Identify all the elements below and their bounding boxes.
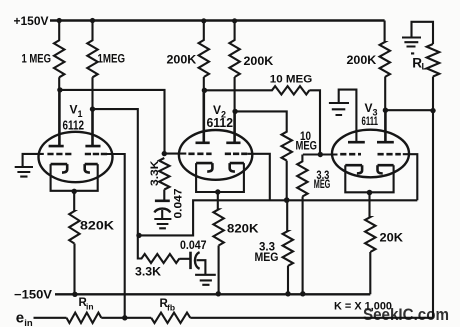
resistor R8 3.3K (plate RC) (138, 235, 191, 263)
svg-text:1: 1 (78, 109, 83, 119)
svg-text:820K: 820K (227, 224, 259, 236)
node summing junction (V1 grid) (122, 315, 127, 320)
V2 right grid dashes (225, 153, 247, 156)
node V2 left grid / 3.3K (162, 151, 167, 156)
node -150V / R13 (285, 291, 290, 296)
svg-text:V: V (213, 103, 221, 117)
resistor R14 20K (V3 cathode) (365, 192, 375, 294)
svg-text:in: in (86, 302, 94, 312)
V3 left grid dashes (340, 153, 361, 156)
wire C2 to ground (197, 260, 206, 275)
V1 left grid pin to ground (23, 154, 44, 167)
V1 right plate (85, 109, 100, 146)
node top rail / 1MEG R1 (57, 18, 62, 23)
wire Rfb to output node (190, 111, 433, 317)
svg-text:SeekIC.com: SeekIC.com (363, 305, 449, 324)
V2 right cathode (230, 163, 244, 172)
resistor R6 820K (V1 cathode) (69, 191, 79, 294)
wire V3 left grid (303, 153, 338, 155)
svg-text:200K: 200K (347, 55, 378, 67)
resistor R12 10 MEG (V2 right plate to divider) (235, 111, 292, 199)
svg-text:6112: 6112 (63, 119, 85, 133)
V1 left plate (49, 90, 64, 146)
node V2 right plate / R4 (232, 109, 237, 114)
wire V1 left plate to coupling network (60, 90, 165, 154)
svg-text:3.3K: 3.3K (135, 267, 162, 279)
node top rail / 200K R4 (232, 18, 237, 23)
resistor R9 820K (V2 cathode) (213, 192, 223, 294)
capacitor C2 0.047 (189, 252, 192, 269)
V1 left cathode (51, 164, 68, 173)
node V3 cathode junction (367, 190, 373, 196)
node V1 cathode junction (72, 189, 77, 194)
node V1 right plate / R2 (90, 106, 95, 111)
svg-text:0.047: 0.047 (173, 189, 185, 219)
node divider junction (V3 right grid node) (284, 197, 290, 203)
V1 left grid dashes (47, 153, 71, 156)
svg-text:10 MEG: 10 MEG (270, 74, 313, 86)
ground G3 (V3 left plate) (329, 103, 349, 115)
node V3 left grid junction (318, 152, 323, 157)
V2 left plate (196, 90, 210, 143)
node -150V / R11 (300, 291, 305, 296)
node top rail / 200K R3 (201, 18, 206, 23)
node V1 left plate / R1 (57, 87, 62, 92)
wire V3 left plate to ground (339, 90, 357, 141)
tube V1 envelope (39, 132, 113, 182)
wire RL bottom to output node (432, 77, 434, 112)
tube V3 envelope (332, 130, 409, 178)
svg-text:820K: 820K (80, 221, 115, 233)
svg-text:in: in (24, 318, 33, 327)
resistor R5 200K (V3 plate load) (380, 21, 390, 111)
svg-text:MEG: MEG (255, 252, 279, 264)
resistor R4 200K (V2 right plate load) (229, 21, 239, 112)
resistor R15 Rin (input) (67, 313, 102, 323)
tube V2 envelope (179, 130, 252, 180)
svg-text:−150V: −150V (14, 287, 52, 301)
capacitor C1 0.047 (155, 200, 170, 201)
wire ground to RL top (412, 22, 434, 44)
svg-text:1 MEG: 1 MEG (22, 54, 52, 66)
node junction 3.3K/0.047 branch (136, 233, 141, 238)
wire V3 cathode return (345, 165, 393, 192)
svg-text:0.047: 0.047 (180, 240, 207, 252)
node V2 left plate / R3 (202, 88, 207, 93)
V2 right grid pin to divider junction (247, 154, 270, 201)
node -150V / R6 (72, 292, 77, 297)
V2 right plate (226, 111, 240, 142)
V1 right grid dashes (85, 153, 107, 156)
V2 left cathode (196, 163, 212, 172)
wire to V2 left grid (164, 153, 186, 155)
V3 right grid pin to divider junction (403, 154, 418, 200)
svg-text:fb: fb (167, 303, 175, 313)
V3 right grid dashes (378, 153, 401, 156)
wire C1 to ground (161, 210, 163, 219)
resistor R2 1MEG (V1 right plate load) (87, 21, 97, 110)
svg-text:MEG: MEG (296, 141, 318, 153)
node top rail / 1MEG R2 (90, 18, 95, 23)
resistor R11 3.3 MEG (V3 grid to -150V) (297, 155, 307, 294)
wire V2 cathode return (196, 163, 244, 192)
ground G4 (C1) (154, 219, 171, 228)
wire e_in input line (34, 317, 67, 319)
svg-text:20K: 20K (380, 233, 404, 245)
node V3 right plate / R5 / output (383, 108, 388, 113)
V3 left cathode (345, 165, 362, 173)
svg-text:L: L (422, 62, 428, 72)
V1 right cathode (85, 164, 98, 173)
wire V1 cathode return (51, 164, 98, 191)
resistor R13 3.3 MEG (divider to -150V) (283, 200, 293, 294)
wire V3 plate to RL (385, 109, 433, 111)
node output RL bottom (430, 108, 435, 113)
resistor R16 Rfb (feedback) (151, 313, 190, 323)
svg-text:6111: 6111 (362, 114, 379, 128)
V3 left plate (348, 141, 365, 144)
svg-text:200K: 200K (167, 55, 198, 67)
wire Rin to summing node (101, 317, 151, 319)
V3 right cathode (378, 165, 394, 173)
node -150V / R9 (216, 291, 221, 296)
svg-text:200K: 200K (244, 56, 275, 68)
V2 left grid dashes (188, 153, 211, 156)
ground G2 (RL return) (402, 38, 421, 54)
V3 right plate (377, 110, 394, 142)
resistor R1 1 MEG (V1 left plate load) (54, 21, 64, 90)
svg-text:1MEG: 1MEG (98, 54, 126, 66)
node V2 cathode junction (215, 189, 220, 194)
resistor RL load (427, 44, 440, 77)
ground G5 (C2) (195, 275, 216, 285)
svg-text:V: V (70, 103, 78, 117)
wire +150V top supply rail (50, 19, 385, 21)
wire -150V supply rail (55, 293, 370, 295)
resistor R7 3.3K (grid compensation) (159, 158, 169, 200)
svg-text:MEG: MEG (314, 179, 331, 191)
resistor R3 200K (V2 left plate load) (199, 21, 209, 91)
svg-text:V: V (365, 101, 373, 115)
svg-text:6112: 6112 (207, 116, 234, 130)
svg-text:e: e (16, 309, 24, 326)
wire branch to divider junction (139, 200, 417, 235)
svg-text:3.3K: 3.3K (149, 160, 161, 186)
resistor R10 10 MEG (V2 left plate to V3 grid) (204, 86, 320, 154)
V1 right grid pin (feedback summing input) (107, 154, 125, 318)
svg-text:+150V: +150V (14, 14, 49, 28)
wire V1 right plate feed (93, 109, 138, 235)
ground G1 (V1 left grid) (15, 167, 33, 177)
